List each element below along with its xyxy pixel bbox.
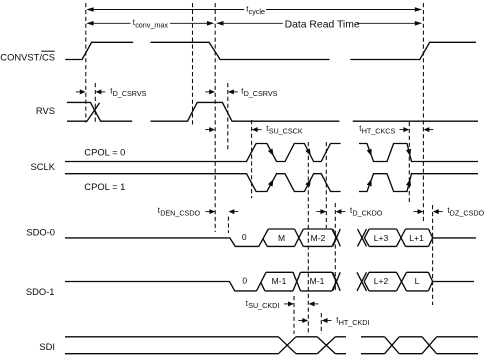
svg-text:SDI: SDI (39, 341, 55, 352)
svg-text:D_CKDO: D_CKDO (352, 209, 382, 218)
svg-text:0: 0 (242, 275, 247, 285)
svg-text:D_CSRVS: D_CSRVS (113, 89, 147, 98)
svg-text:DEN_CSDO: DEN_CSDO (160, 209, 200, 218)
svg-text:Data Read Time: Data Read Time (285, 19, 360, 30)
svg-text:conv_max: conv_max (135, 21, 168, 30)
svg-text:CPOL = 1: CPOL = 1 (84, 181, 125, 192)
svg-text:SU_CSCK: SU_CSCK (269, 127, 303, 136)
svg-text:SDO-0: SDO-0 (26, 227, 55, 238)
svg-text:D_CSRVS: D_CSRVS (244, 89, 278, 98)
svg-text:CPOL = 0: CPOL = 0 (84, 147, 125, 158)
svg-text:HT_CKDI: HT_CKDI (339, 318, 370, 327)
svg-text:L+1: L+1 (409, 233, 424, 243)
svg-text:M-1: M-1 (310, 276, 325, 286)
svg-text:SCLK: SCLK (31, 161, 56, 172)
svg-text:M: M (278, 233, 285, 243)
svg-text:M-1: M-1 (272, 276, 287, 286)
svg-text:SDO-1: SDO-1 (26, 286, 55, 297)
svg-text:HT_CKCS: HT_CKCS (362, 127, 396, 136)
svg-text:0: 0 (242, 232, 247, 242)
svg-text:CONVST/CS: CONVST/CS (0, 51, 55, 62)
svg-text:cycle: cycle (249, 7, 265, 16)
svg-text:RVS: RVS (36, 105, 55, 116)
svg-text:L: L (415, 276, 420, 286)
svg-text:L+2: L+2 (374, 276, 389, 286)
svg-text:DZ_CSDO: DZ_CSDO (450, 209, 485, 218)
svg-text:L+3: L+3 (374, 233, 389, 243)
svg-text:SU_CKDI: SU_CKDI (248, 301, 279, 310)
svg-text:M-2: M-2 (311, 233, 326, 243)
